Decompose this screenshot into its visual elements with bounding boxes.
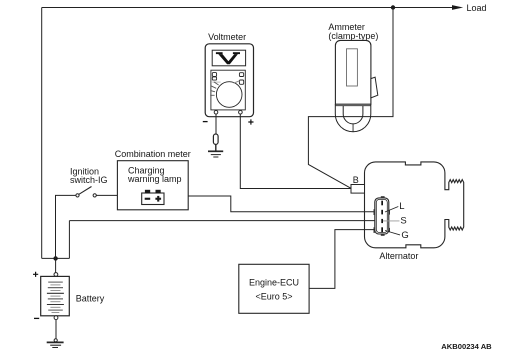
- svg-text:Load: Load: [467, 3, 487, 13]
- voltmeter dial tick marks: [210, 81, 239, 96]
- node: junction dot on top bus for ammeter branch: [391, 5, 395, 9]
- label: Charging warning lamp: [127, 165, 182, 184]
- switch SW ignition switch-IG contact circles and blade: [76, 187, 96, 197]
- svg-text:B: B: [353, 175, 359, 185]
- label: voltmeter minus: [203, 121, 208, 123]
- alternator connector outer shell: [375, 198, 389, 234]
- leader line: G pin: [385, 231, 400, 235]
- label: S: [400, 216, 406, 227]
- label: voltmeter plus: [248, 119, 253, 124]
- wire: fuse to ground: [215, 144, 217, 151]
- svg-text:G: G: [401, 230, 408, 241]
- wire: ammeter branch through clamp down to B terminal: [308, 8, 393, 189]
- svg-text:AKB00234 AB: AKB00234 AB: [441, 342, 492, 351]
- combination meter box: [117, 161, 188, 210]
- leader line: S pin: [383, 220, 400, 222]
- voltmeter dial: [216, 82, 242, 108]
- label: Ignition switch-IG: [70, 167, 108, 186]
- node: battery positive junction dot: [53, 256, 57, 260]
- alternator connector inner shell: [376, 199, 387, 232]
- svg-text:Battery: Battery: [76, 294, 105, 304]
- wire: engine ECU to alternator G pin: [309, 230, 375, 289]
- svg-text:Alternator: Alternator: [379, 251, 418, 261]
- charging warning lamp symbol: [142, 190, 164, 205]
- wire: voltmeter minus lead down to fuse: [215, 114, 217, 134]
- battery BT1 body: [41, 276, 70, 315]
- voltmeter display window: [212, 50, 245, 66]
- svg-text:(clamp-type): (clamp-type): [328, 31, 378, 41]
- alternator connector keying tabs: [374, 196, 391, 236]
- wire: riser from battery bus up to ignition switch: [56, 195, 77, 258]
- leader line: L pin: [385, 207, 398, 213]
- fuse/connector pill on voltmeter minus lead: [213, 134, 218, 144]
- voltmeter terminal posts: [214, 110, 242, 114]
- svg-text:<Euro 5>: <Euro 5>: [255, 291, 292, 301]
- ammeter body: [335, 40, 371, 104]
- wire: junction dot down to battery + terminal: [55, 258, 57, 272]
- label: Combination meter: [115, 149, 191, 159]
- ground: battery negative ground with terminal ring: [47, 339, 64, 348]
- load arrow head: [452, 5, 463, 10]
- ammeter trigger lever: [371, 77, 378, 98]
- wire: battery positive bus (horizontal junction bar): [42, 257, 70, 259]
- engine ECU box: [239, 264, 309, 313]
- label: battery plus: [33, 272, 38, 277]
- wire: S-sense long horizontal run to alternator S pin: [69, 220, 374, 222]
- svg-text:Engine-ECU: Engine-ECU: [249, 278, 299, 288]
- label: G: [401, 230, 408, 241]
- label: Voltmeter: [208, 32, 246, 42]
- svg-text:switch-IG: switch-IG: [70, 175, 108, 185]
- wire: left vertical riser from top bus to battery bus: [41, 8, 43, 259]
- label: diagram code AKB00234 AB: [441, 342, 492, 351]
- label: B terminal: [353, 175, 359, 185]
- wire: battery negative to ground: [55, 320, 57, 339]
- wire: switch to combination meter: [96, 194, 117, 196]
- label: Alternator: [379, 251, 418, 261]
- wire: voltmeter plus lead to alternator B terminal: [240, 114, 351, 189]
- svg-text:Voltmeter: Voltmeter: [208, 32, 246, 42]
- ammeter display window: [347, 49, 358, 86]
- label: Load: [467, 3, 487, 13]
- battery positive terminal circle: [54, 273, 58, 277]
- voltmeter lower panel: [211, 70, 245, 110]
- alternator B terminal block: [351, 185, 365, 194]
- battery negative terminal circle: [54, 316, 58, 320]
- voltmeter body: [205, 44, 253, 117]
- label: Engine-ECU <Euro 5>: [249, 278, 299, 302]
- label: battery minus: [34, 317, 39, 319]
- ammeter clamp jaw: [335, 104, 371, 132]
- voltmeter V glyph: [216, 52, 240, 64]
- label: Battery: [76, 294, 105, 304]
- label: L: [399, 201, 404, 212]
- label: Ammeter (clamp-type): [328, 22, 378, 41]
- alternator connector pins 1-4: [381, 201, 383, 232]
- svg-text:S: S: [400, 216, 406, 227]
- svg-text:L: L: [399, 201, 404, 212]
- wire: combination meter to alternator L pin (step down): [188, 196, 375, 212]
- wire: S-sense riser from battery bus: [68, 221, 70, 259]
- wire: top bus from left riser to Load arrow: [42, 7, 453, 9]
- battery plates: [47, 282, 64, 312]
- svg-text:warning lamp: warning lamp: [127, 174, 182, 184]
- alternator body with mounting notches and threaded shaft: [365, 162, 464, 248]
- voltmeter panel buttons: [212, 73, 243, 85]
- ground: voltmeter minus lead ground: [208, 151, 223, 157]
- svg-text:Combination meter: Combination meter: [115, 149, 191, 159]
